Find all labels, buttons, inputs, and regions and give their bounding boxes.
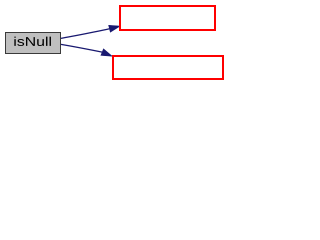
wire arrows (midnightblue edges) (0, 0, 229, 88)
edge to top red node (61, 25, 120, 38)
label "isNull" (text as path, Liberation Sans outlines) (14, 37, 51, 46)
node 2 (top red truncated node) (119, 5, 215, 31)
edge to bottom red node (61, 44, 112, 56)
node isNull (current node, grey filled) (5, 32, 61, 54)
node 3 (bottom red truncated node) (112, 55, 225, 80)
